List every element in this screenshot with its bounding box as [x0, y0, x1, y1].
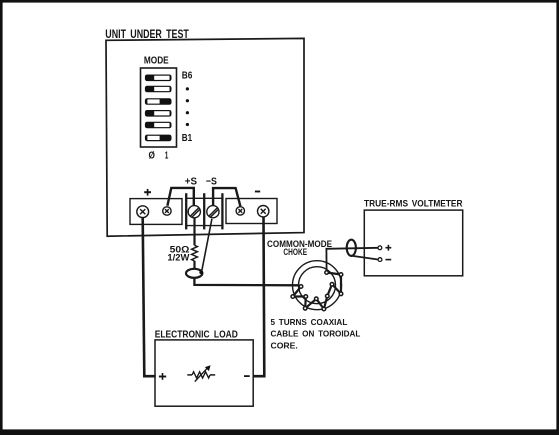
- svg-text:TRUE-RMS VOLTMETER: TRUE-RMS VOLTMETER: [364, 199, 463, 209]
- svg-text:Ø: Ø: [149, 151, 156, 162]
- svg-text:UNIT UNDER TEST: UNIT UNDER TEST: [105, 27, 189, 41]
- svg-text:−S: −S: [206, 176, 217, 187]
- svg-text:CHOKE: CHOKE: [283, 247, 307, 257]
- svg-text:ELECTRONIC LOAD: ELECTRONIC LOAD: [155, 330, 238, 341]
- svg-text:CABLE ON TOROIDAL: CABLE ON TOROIDAL: [271, 330, 361, 339]
- svg-text:B1: B1: [182, 133, 193, 144]
- svg-text:B6: B6: [182, 71, 193, 82]
- svg-text:1: 1: [165, 150, 169, 161]
- svg-text:1/2W: 1/2W: [167, 252, 190, 262]
- svg-text:CORE.: CORE.: [271, 341, 298, 350]
- svg-text:5 TURNS COAXIAL: 5 TURNS COAXIAL: [271, 318, 348, 327]
- svg-text:+S: +S: [185, 176, 197, 187]
- svg-text:MODE: MODE: [144, 55, 169, 66]
